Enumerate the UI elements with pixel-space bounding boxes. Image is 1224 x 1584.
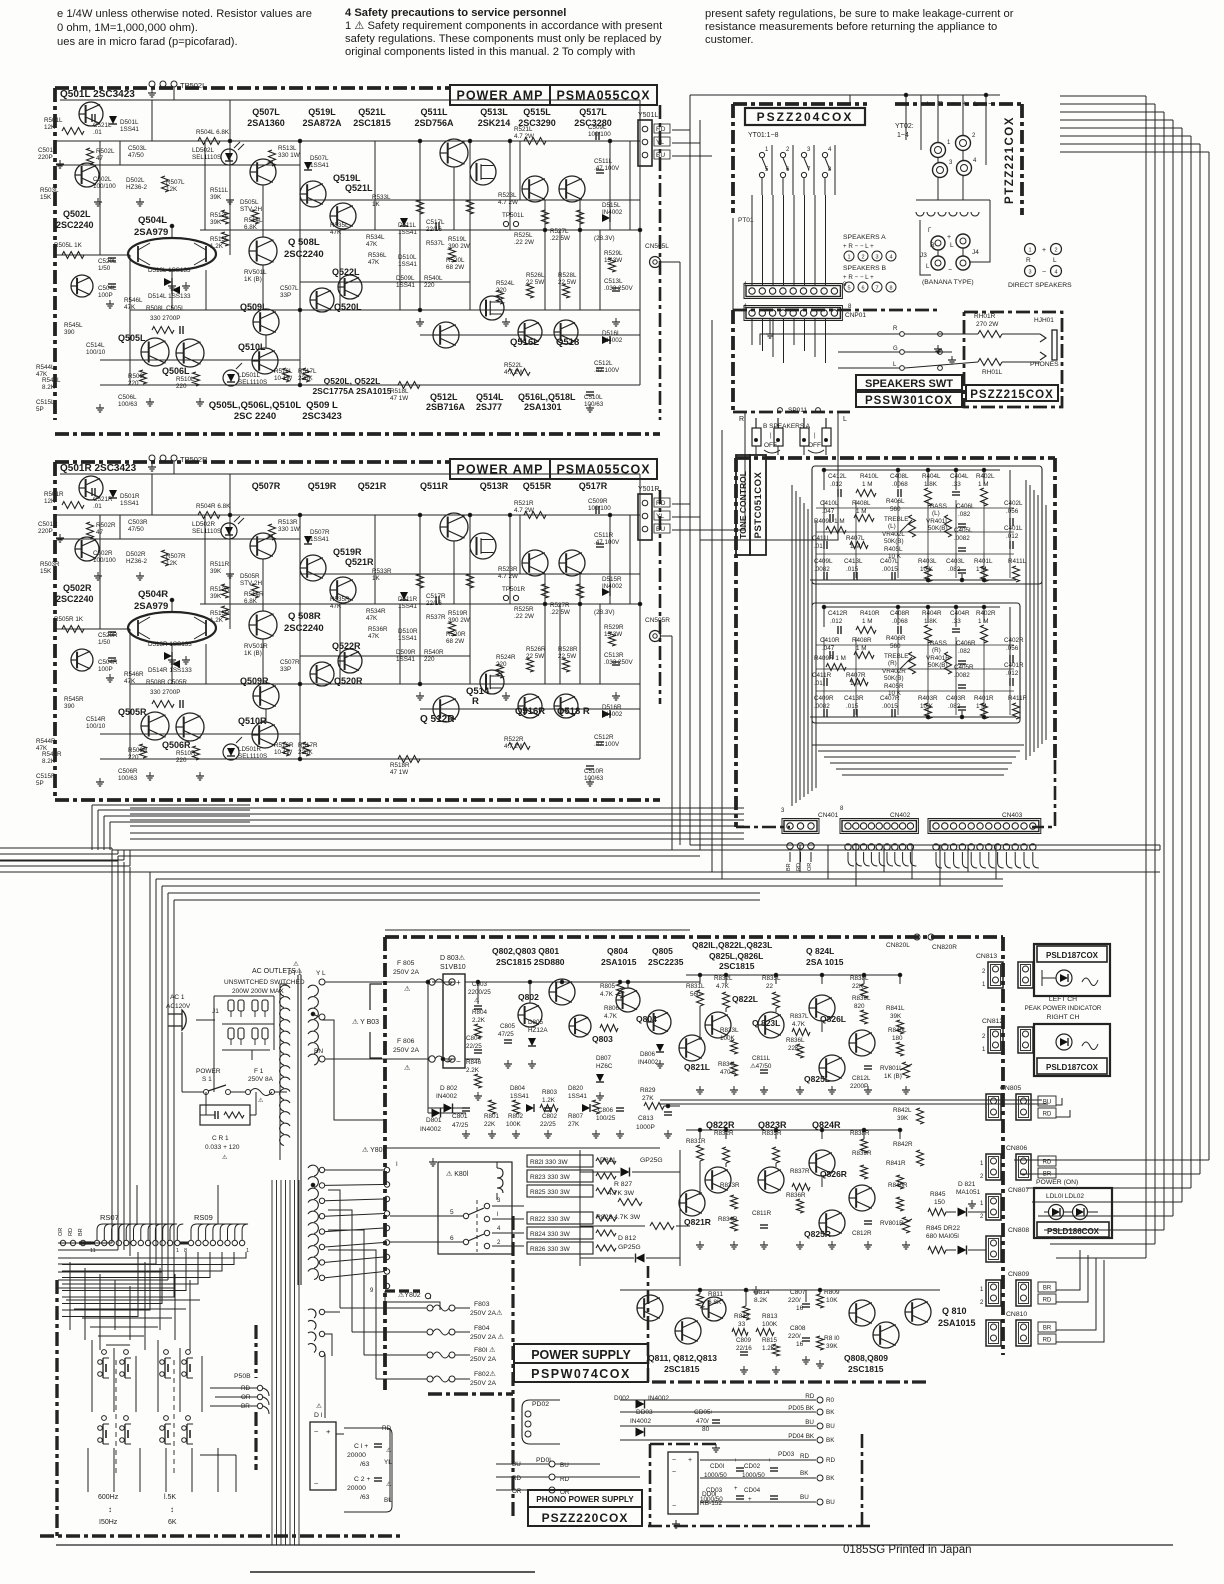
svg-text:10K: 10K <box>826 1297 838 1304</box>
vertical bundle mid <box>689 95 691 845</box>
svg-text:R527L: R527L <box>550 228 569 235</box>
svg-text:ues are in micro farad (p=pico: ues are in micro farad (p=picofarad). <box>57 36 238 48</box>
svg-text:16: 16 <box>796 1341 804 1348</box>
svg-text:Q510R: Q510R <box>238 716 267 726</box>
connector Y501L <box>638 120 652 166</box>
svg-text:C501L: C501L <box>38 147 57 154</box>
transistor Q522L <box>338 275 362 299</box>
svg-text:D804: D804 <box>510 1085 526 1092</box>
svg-text:2SC1815: 2SC1815 <box>848 1364 884 1374</box>
svg-text:100P: 100P <box>98 292 113 299</box>
svg-text:R537R: R537R <box>426 614 446 621</box>
svg-text:1~4: 1~4 <box>897 132 909 139</box>
TONE CONTROL title box <box>736 455 750 555</box>
svg-text:J3: J3 <box>920 252 927 259</box>
svg-text:220: 220 <box>496 661 507 668</box>
svg-text:~: ~ <box>672 1469 676 1476</box>
svg-text:HZ6C: HZ6C <box>596 1063 613 1070</box>
footer blue line <box>250 1571 535 1573</box>
svg-text:C506L: C506L <box>118 394 137 401</box>
svg-text:+: + <box>768 1458 772 1464</box>
svg-text:F 1: F 1 <box>254 1068 264 1075</box>
transistor Q501R <box>79 476 103 500</box>
cluster wires <box>686 1129 900 1131</box>
svg-text:100/10: 100/10 <box>86 349 106 356</box>
transistor Q801 <box>549 979 575 1005</box>
mesh horizontals lower <box>66 1299 200 1301</box>
svg-text:Q518: Q518 <box>556 337 579 348</box>
svg-text:47K: 47K <box>124 678 136 685</box>
svg-text:2SB716A: 2SB716A <box>426 402 466 412</box>
svg-text:SEL1110S: SEL1110S <box>192 528 221 535</box>
svg-text:2.2K: 2.2K <box>472 1017 486 1024</box>
svg-text:27K: 27K <box>642 1095 654 1102</box>
svg-text:Q516L: Q516L <box>510 337 539 348</box>
peak power indicator left PSLD187COX <box>1034 944 1110 996</box>
svg-text:47/50: 47/50 <box>128 526 144 533</box>
svg-text:12K: 12K <box>44 498 56 505</box>
svg-text:LEFT CH: LEFT CH <box>1049 996 1077 1003</box>
svg-text:Q517L: Q517L <box>579 107 607 117</box>
wire rails <box>60 473 640 475</box>
svg-text:1K (B): 1K (B) <box>244 276 262 283</box>
svg-text:1SS41: 1SS41 <box>396 282 415 289</box>
PSZZ215COX block border <box>964 312 1062 407</box>
svg-text:50K(B): 50K(B) <box>884 675 904 682</box>
svg-text:R: R <box>1026 257 1031 264</box>
svg-text:IN4002: IN4002 <box>602 711 623 718</box>
svg-text:R516R: R516R <box>274 742 294 749</box>
svg-text:CD03: CD03 <box>706 1487 723 1494</box>
transistor Q507L <box>250 159 276 185</box>
svg-text:Q 512R: Q 512R <box>420 714 455 725</box>
svg-text:CN813: CN813 <box>976 953 997 960</box>
svg-text:R811: R811 <box>708 1291 723 1298</box>
transistor Q811 <box>637 1295 663 1321</box>
svg-text:Q510L: Q510L <box>238 342 266 352</box>
svg-text:HJH01: HJH01 <box>1034 317 1054 324</box>
LED LD501R <box>223 744 239 760</box>
svg-text:S 1: S 1 <box>202 1076 212 1083</box>
svg-text:.056: .056 <box>1006 508 1019 515</box>
svg-text:PSLD186COX: PSLD186COX <box>1047 1227 1100 1236</box>
wires YT01 to strip <box>751 195 753 285</box>
svg-text:2SC1815: 2SC1815 <box>353 118 391 128</box>
CN wires right <box>1056 1098 1062 1105</box>
connector CN401 <box>784 821 817 832</box>
svg-text:R845: R845 <box>930 1191 946 1198</box>
svg-text:12K: 12K <box>166 186 178 193</box>
svg-text:Q509 L: Q509 L <box>306 400 338 411</box>
svg-text:47 1W: 47 1W <box>390 769 408 776</box>
fuse feed wires <box>340 1307 427 1309</box>
svg-text:R: R <box>930 242 935 249</box>
svg-text:C404R: C404R <box>950 610 970 617</box>
ground symbols <box>59 160 61 164</box>
cluster grid wires R <box>823 637 825 715</box>
svg-text:C517R: C517R <box>426 593 446 600</box>
svg-text:1SS41: 1SS41 <box>396 656 415 663</box>
svg-text:safety regulations. These comp: safety regulations. These components mus… <box>345 33 662 45</box>
svg-text:D515L: D515L <box>602 202 621 209</box>
svg-text:D505R: D505R <box>240 573 260 580</box>
svg-text:+ R − − L +: + R − − L + <box>843 243 874 250</box>
svg-text:BR: BR <box>786 863 792 871</box>
svg-text:+: + <box>734 1458 738 1464</box>
svg-text:(BANANA TYPE): (BANANA TYPE) <box>922 279 974 286</box>
svg-text:R804: R804 <box>472 1009 488 1016</box>
svg-text:560: 560 <box>890 506 901 513</box>
svg-text:BU: BU <box>1043 1100 1051 1106</box>
svg-text:12K: 12K <box>44 124 56 131</box>
tone cluster R board outline <box>812 603 1020 723</box>
svg-text:C506R: C506R <box>118 768 138 775</box>
svg-text:IN4002: IN4002 <box>648 1395 669 1402</box>
svg-text:12K: 12K <box>166 560 178 567</box>
svg-text:SP011: SP011 <box>788 407 807 414</box>
svg-text:C811R: C811R <box>752 1210 772 1217</box>
svg-text:C410L: C410L <box>820 500 839 507</box>
svg-text:TREBLE: TREBLE <box>884 653 909 660</box>
svg-text:100/63: 100/63 <box>584 775 604 782</box>
svg-text:Q505L: Q505L <box>118 333 146 343</box>
tone border extras <box>1032 760 1055 827</box>
svg-text:R801: R801 <box>484 1113 500 1120</box>
svg-text:2SC2240: 2SC2240 <box>56 594 94 604</box>
svg-text:PSTC051COX: PSTC051COX <box>753 471 764 538</box>
svg-text:RV801R: RV801R <box>880 1220 904 1227</box>
secondary taps <box>319 1167 324 1172</box>
svg-text:3: 3 <box>875 255 878 261</box>
svg-text:R406L: R406L <box>886 498 905 505</box>
ground at CNP01 <box>769 319 771 330</box>
svg-text:330 2700P: 330 2700P <box>150 315 180 322</box>
transistor Q512L <box>433 322 459 348</box>
svg-text:4.7K: 4.7K <box>716 983 730 990</box>
svg-text:Q82lL,Q822L,Q823L: Q82lL,Q822L,Q823L <box>692 940 772 950</box>
svg-text:250V 2A: 250V 2A <box>393 1047 420 1054</box>
svg-text:Q 508L: Q 508L <box>288 237 320 248</box>
svg-text:Q808,Q809: Q808,Q809 <box>844 1353 888 1363</box>
svg-text:e 1/4W unless otherwise noted.: e 1/4W unless otherwise noted. Resistor … <box>57 8 312 20</box>
svg-text:C R 1: C R 1 <box>212 1135 229 1142</box>
svg-text:R507L: R507L <box>166 179 185 186</box>
svg-text:R833R: R833R <box>720 1182 740 1189</box>
row1 symbols <box>837 626 839 634</box>
svg-text:100/63: 100/63 <box>118 775 138 782</box>
svg-text:SPEAKERS SWT: SPEAKERS SWT <box>865 378 953 390</box>
svg-text:2: 2 <box>861 255 864 261</box>
transistor Q502R <box>75 537 99 561</box>
svg-text:R546L: R546L <box>124 297 143 304</box>
svg-text:1SS41: 1SS41 <box>568 1093 587 1100</box>
svg-text:100K: 100K <box>762 1321 778 1328</box>
svg-text:BU: BU <box>826 1423 835 1430</box>
svg-text:4.7 2W: 4.7 2W <box>514 133 534 140</box>
svg-text:.33: .33 <box>952 618 961 625</box>
svg-text:C504L: C504L <box>98 285 117 292</box>
switch contacts YT01 <box>759 152 764 157</box>
svg-text:C510R: C510R <box>584 768 604 775</box>
svg-text:Q804: Q804 <box>607 946 628 956</box>
svg-text:1 ⚠ Safety requirement compone: 1 ⚠ Safety requirement components in acc… <box>345 20 663 32</box>
svg-text:.0082: .0082 <box>954 535 970 542</box>
svg-text:.012: .012 <box>830 618 843 625</box>
svg-text:TONE CONTROL: TONE CONTROL <box>738 471 748 539</box>
svg-text:68 2W: 68 2W <box>446 638 464 645</box>
svg-text:R835L: R835L <box>762 975 781 982</box>
svg-text:1SS41: 1SS41 <box>398 229 417 236</box>
svg-text:PD03: PD03 <box>778 1451 795 1458</box>
svg-text:100/10: 100/10 <box>86 723 106 730</box>
svg-text:Q516L,Q518L: Q516L,Q518L <box>518 392 576 402</box>
svg-text:C403L: C403L <box>946 558 965 565</box>
svg-text:D516R: D516R <box>602 704 622 711</box>
svg-text:PD02: PD02 <box>532 1401 549 1408</box>
svg-text:220K: 220K <box>298 749 314 756</box>
svg-text:F 805: F 805 <box>397 960 415 967</box>
svg-text:D516L: D516L <box>602 330 621 337</box>
svg-text:0185SG Printed in Japan: 0185SG Printed in Japan <box>843 1544 972 1556</box>
svg-text:100/63: 100/63 <box>118 401 138 408</box>
svg-text:R: R <box>472 696 479 707</box>
svg-text:R836L: R836L <box>786 1037 805 1044</box>
svg-text:.0068: .0068 <box>892 618 908 625</box>
svg-text:1SS41: 1SS41 <box>398 261 417 268</box>
transistor Q508L <box>249 237 277 265</box>
small winding above D1 <box>308 1309 316 1318</box>
mosfet Q514R <box>480 670 504 694</box>
svg-text:Q518 R: Q518 R <box>557 706 590 717</box>
svg-text:1SS41: 1SS41 <box>120 126 139 133</box>
transistor Q821L <box>679 1035 705 1061</box>
svg-text:IN4002: IN4002 <box>420 1126 441 1133</box>
svg-text:−: − <box>948 267 952 274</box>
transistor Q503R <box>71 649 93 671</box>
svg-text:(L): (L) <box>888 523 896 530</box>
transistor Q803 <box>569 1015 591 1037</box>
svg-text:R842L: R842L <box>893 1107 912 1114</box>
svg-text:4 Safety precautions to servic: 4 Safety precautions to service personne… <box>345 7 566 19</box>
svg-text:1.2K: 1.2K <box>210 617 224 624</box>
svg-text:R840L: R840L <box>888 1027 907 1034</box>
svg-text:D514R 1SS133: D514R 1SS133 <box>148 667 192 674</box>
svg-text:CN402: CN402 <box>890 812 911 819</box>
svg-text:R402R: R402R <box>976 610 996 617</box>
svg-text:2200P: 2200P <box>850 1083 868 1090</box>
svg-text:47K: 47K <box>36 745 48 752</box>
svg-text:+: + <box>326 1427 331 1436</box>
svg-text:+: + <box>947 234 951 241</box>
mute switch FETs row1 <box>102 1350 107 1355</box>
svg-text:6.8K: 6.8K <box>244 224 258 231</box>
svg-text:220: 220 <box>424 656 435 663</box>
svg-text:present safety regulations, be: present safety regulations, be sure to m… <box>705 8 1014 20</box>
svg-text:R: R <box>938 101 943 108</box>
svg-text:250V 2A⚠: 250V 2A⚠ <box>470 1309 502 1317</box>
svg-text:1K (B): 1K (B) <box>244 650 262 657</box>
transistor Q520L <box>310 288 334 312</box>
svg-text:250V 8A: 250V 8A <box>248 1076 274 1083</box>
svg-text:(R): (R) <box>888 660 897 667</box>
transistor Q507R <box>250 533 276 559</box>
svg-text:220: 220 <box>176 757 187 764</box>
svg-text:PSZZ204COX: PSZZ204COX <box>757 110 854 124</box>
svg-text:R411R: R411R <box>1008 695 1028 702</box>
svg-text:TP502R: TP502R <box>180 455 208 464</box>
svg-text:C520L: C520L <box>98 258 117 265</box>
tone control block border <box>736 456 1055 460</box>
svg-text:+ R − − L +: + R − − L + <box>843 274 874 281</box>
svg-text:YT02:: YT02: <box>895 123 914 130</box>
svg-text:L: L <box>1053 257 1057 264</box>
tone cluster L board outline <box>812 466 1042 584</box>
LED LD502L <box>221 149 237 165</box>
svg-text:+: + <box>688 1457 692 1464</box>
svg-text:R517R: R517R <box>298 742 318 749</box>
svg-text:STV-2H: STV-2H <box>240 580 262 587</box>
svg-text:.22 2W: .22 2W <box>514 239 534 246</box>
svg-text:R524L: R524L <box>496 280 515 287</box>
svg-text:5: 5 <box>450 1209 454 1216</box>
svg-text:−: − <box>952 99 957 108</box>
svg-text:1K (B): 1K (B) <box>884 1073 902 1080</box>
svg-text:220: 220 <box>176 383 187 390</box>
svg-text:15K: 15K <box>40 194 52 201</box>
svg-text:1 M: 1 M <box>978 481 989 488</box>
svg-text:39K: 39K <box>897 1115 909 1122</box>
switch link dashed lines <box>115 1360 117 1475</box>
svg-text:R514L: R514L <box>244 217 263 224</box>
svg-text:10 1W: 10 1W <box>274 375 292 382</box>
svg-text:SEL1110S: SEL1110S <box>238 753 267 760</box>
svg-text:47K: 47K <box>124 304 136 311</box>
transistor Q506R <box>176 713 204 741</box>
svg-text:SPEAKERS A: SPEAKERS A <box>843 234 886 241</box>
transistor Q515L <box>522 176 548 202</box>
svg-text:47: 47 <box>96 529 104 536</box>
svg-text:1 M: 1 M <box>862 481 873 488</box>
transistor Q521R <box>330 577 356 603</box>
svg-text:D513R 1SS133: D513R 1SS133 <box>148 641 192 648</box>
svg-text:.015: .015 <box>846 566 859 573</box>
svg-text:.47 100V: .47 100V <box>594 165 620 172</box>
svg-text:R803: R803 <box>542 1089 558 1096</box>
svg-text:Q521R: Q521R <box>345 557 374 567</box>
svg-text:C409L: C409L <box>814 558 833 565</box>
svg-text:2SD756A: 2SD756A <box>414 118 454 128</box>
bus left corner verticals <box>111 850 113 1243</box>
svg-text:C515L: C515L <box>36 399 55 406</box>
svg-text:−: − <box>988 99 993 108</box>
svg-text:RD: RD <box>805 1393 815 1400</box>
svg-text:R518R: R518R <box>390 762 410 769</box>
svg-text:1000/50: 1000/50 <box>704 1472 727 1479</box>
svg-text:+: + <box>748 1496 752 1503</box>
svg-text:.33: .33 <box>952 481 961 488</box>
svg-text:C412R: C412R <box>828 610 848 617</box>
svg-text:D502L: D502L <box>126 177 145 184</box>
feed wires <box>579 1150 581 1266</box>
svg-text:4.7 2W: 4.7 2W <box>504 743 524 750</box>
svg-text:Y501R: Y501R <box>638 486 659 493</box>
svg-text:15 3W: 15 3W <box>604 257 622 264</box>
svg-text:330 2700P: 330 2700P <box>150 689 180 696</box>
svg-text:D511L: D511L <box>398 222 417 229</box>
svg-text:R410L: R410L <box>860 473 879 480</box>
svg-text:2SA872A: 2SA872A <box>302 118 342 128</box>
svg-text:5P: 5P <box>36 406 44 413</box>
wire BN to F806 <box>325 1058 428 1060</box>
svg-text:Q504L: Q504L <box>138 215 167 226</box>
transistor Q821R <box>679 1190 705 1216</box>
svg-text:C413L: C413L <box>844 558 863 565</box>
svg-text:R515L: R515L <box>210 236 229 243</box>
svg-text:Q509R: Q509R <box>240 676 269 686</box>
svg-text:LD501R: LD501R <box>238 746 262 753</box>
svg-text:D507L: D507L <box>310 155 329 162</box>
svg-text:C503R: C503R <box>128 519 148 526</box>
svg-text:R534L: R534L <box>366 234 385 241</box>
svg-text:Q 810: Q 810 <box>942 1306 967 1316</box>
svg-text:Q519L: Q519L <box>308 107 336 117</box>
bottom border lines <box>55 432 660 436</box>
svg-text:⚠: ⚠ <box>293 960 299 968</box>
svg-text:Y501L: Y501L <box>638 112 658 119</box>
svg-text:D 812: D 812 <box>618 1235 636 1242</box>
svg-text:100/25: 100/25 <box>596 1115 616 1122</box>
svg-text:Q822R: Q822R <box>706 1120 735 1130</box>
wire fuse to rectifier <box>432 981 443 983</box>
svg-text:HZ36-2: HZ36-2 <box>126 558 147 565</box>
svg-text:C507L: C507L <box>280 285 299 292</box>
svg-text:Q802,Q803 Q801: Q802,Q803 Q801 <box>492 946 559 956</box>
svg-text:C812R: C812R <box>852 1230 872 1237</box>
transistor Q516R <box>518 694 542 718</box>
svg-text:BR: BR <box>78 1228 84 1236</box>
svg-text:R405L: R405L <box>884 546 903 553</box>
svg-text:R525L: R525L <box>514 232 533 239</box>
svg-text:C411L: C411L <box>812 535 831 542</box>
svg-text:Q 824L: Q 824L <box>806 946 834 956</box>
left frame dash-dot <box>55 1280 58 1536</box>
svg-text:LDL0l LDL02: LDL0l LDL02 <box>1046 1193 1084 1200</box>
svg-text:22/16: 22/16 <box>426 226 442 233</box>
svg-text:PHONO POWER SUPPLY: PHONO POWER SUPPLY <box>536 1495 634 1504</box>
svg-text:8.2K: 8.2K <box>42 758 56 765</box>
svg-text:F 806: F 806 <box>397 1038 415 1045</box>
svg-text:D002: D002 <box>614 1395 630 1402</box>
test point TP502L <box>149 81 155 87</box>
svg-text:R831L: R831L <box>686 983 705 990</box>
svg-text:LD501L: LD501L <box>238 372 261 379</box>
svg-text:GP25G: GP25G <box>618 1244 641 1251</box>
POWER SUPPLY title box <box>514 1344 648 1363</box>
svg-text:1SS41: 1SS41 <box>310 162 329 169</box>
cluster wires L <box>824 469 1000 471</box>
svg-text:Q502L: Q502L <box>63 209 91 219</box>
svg-text:AC120V: AC120V <box>166 1003 191 1010</box>
svg-text:4.7K: 4.7K <box>600 991 614 998</box>
svg-text:C808: C808 <box>790 1325 806 1332</box>
svg-text:C405L: C405L <box>954 527 973 534</box>
svg-text:I50Hz: I50Hz <box>99 1519 118 1526</box>
svg-text:R404L: R404L <box>922 473 941 480</box>
svg-text:R535L: R535L <box>330 222 349 229</box>
svg-text:250V 2A: 250V 2A <box>470 1356 497 1363</box>
svg-text:R502R: R502R <box>96 522 116 529</box>
svg-text:IN4002: IN4002 <box>630 1418 651 1425</box>
